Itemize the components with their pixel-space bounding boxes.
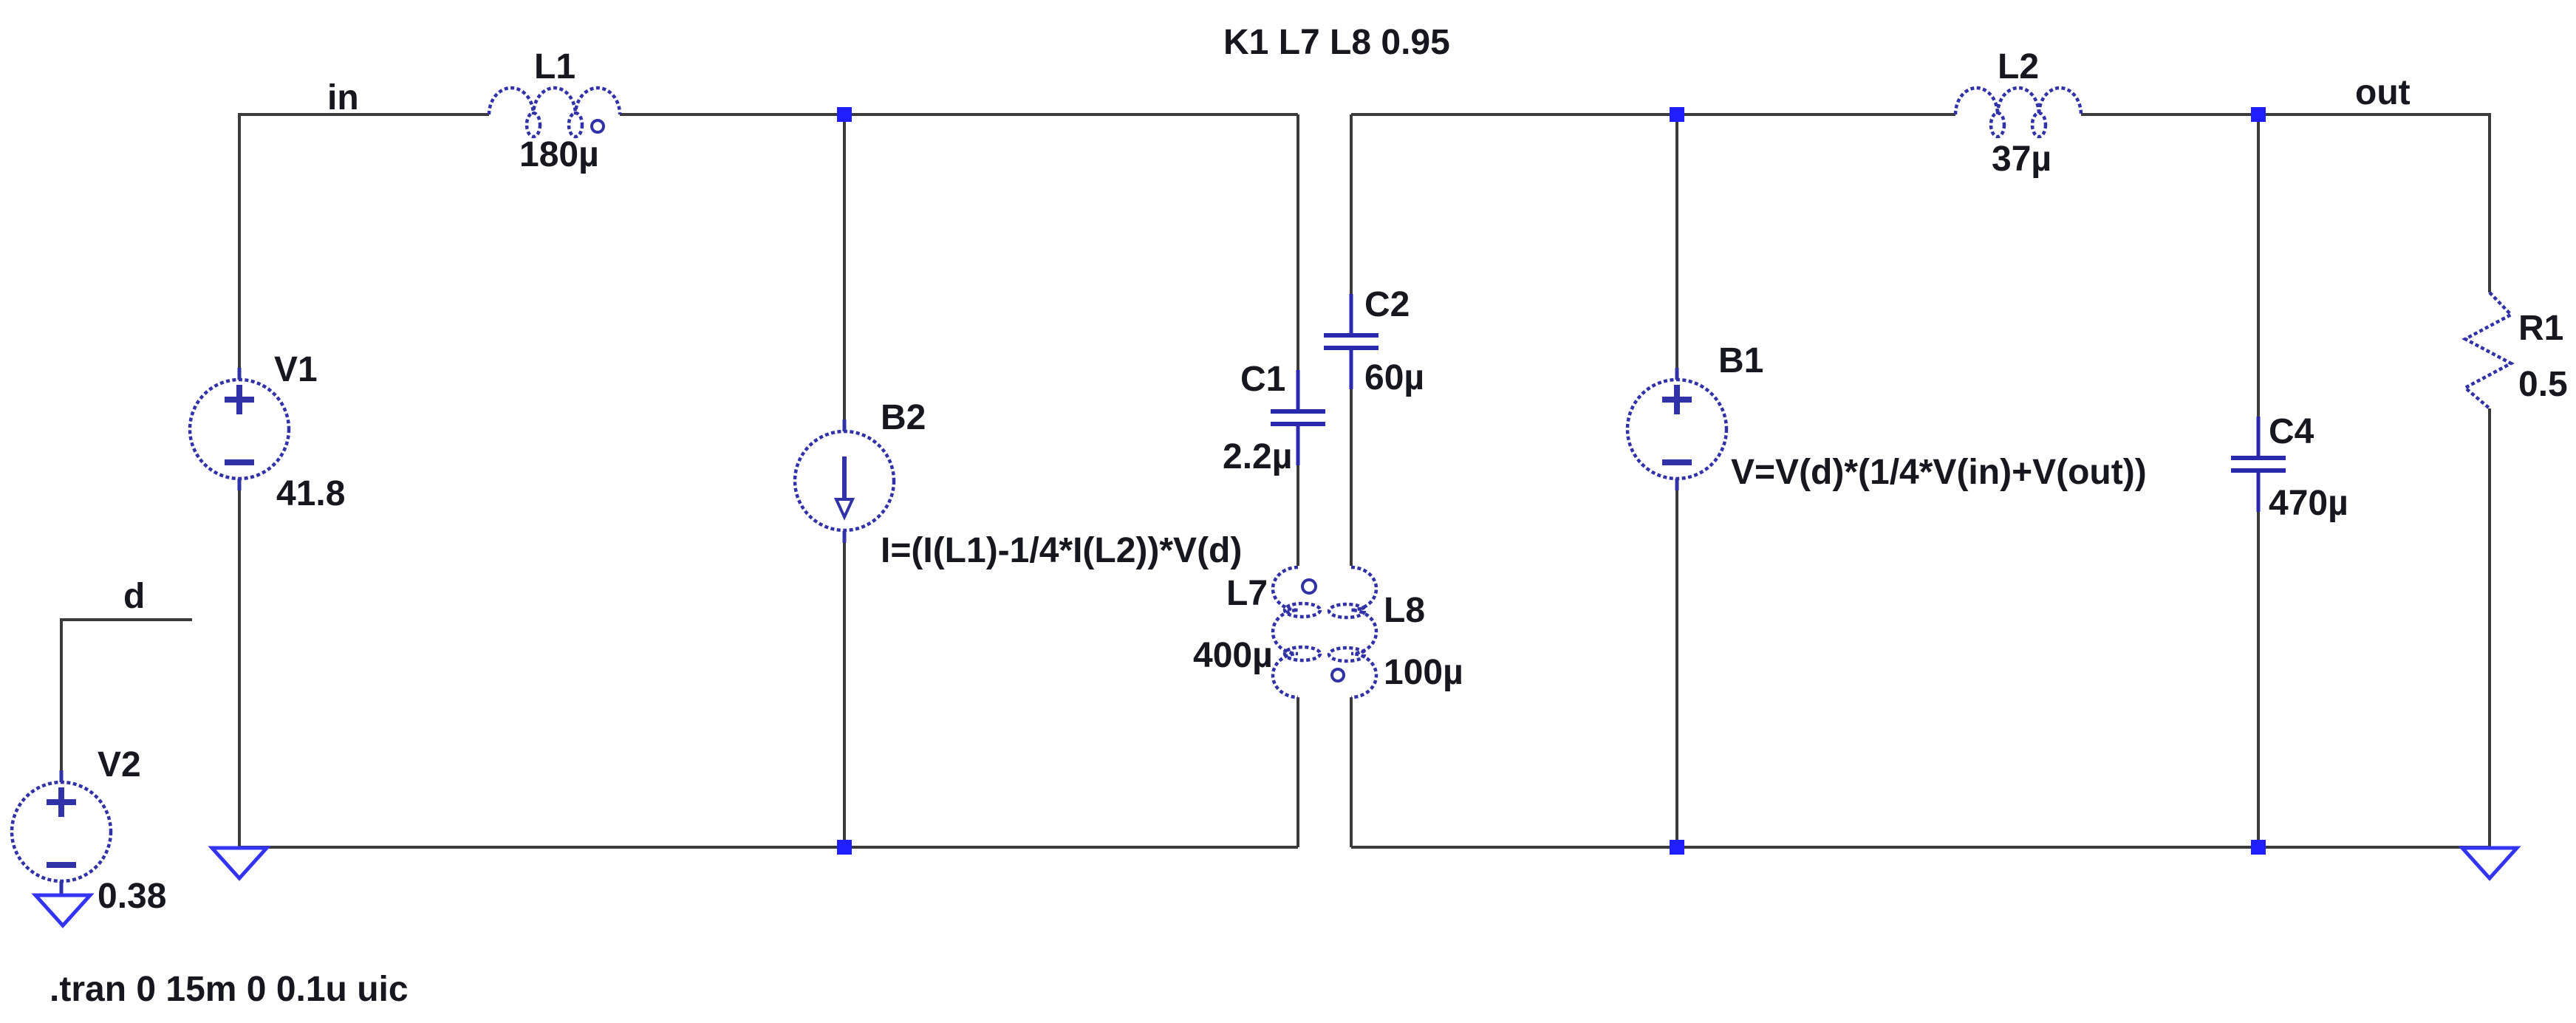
svg-text:0.38: 0.38 bbox=[98, 877, 166, 916]
svg-text:B2: B2 bbox=[881, 398, 926, 437]
wire B1 bottom bbox=[1675, 490, 1678, 847]
voltage source V2 bbox=[12, 770, 111, 895]
ground left bbox=[212, 848, 267, 878]
wire C4 bottom bbox=[2257, 512, 2260, 847]
svg-text:0.5: 0.5 bbox=[2518, 365, 2568, 404]
ground V2 bbox=[35, 895, 90, 926]
wire C4 top bbox=[2257, 114, 2260, 417]
svg-text:41.8: 41.8 bbox=[276, 474, 345, 513]
wire node d stub bbox=[61, 620, 192, 770]
svg-text:2.2µ: 2.2µ bbox=[1223, 437, 1292, 476]
svg-text:37µ: 37µ bbox=[1992, 140, 2051, 179]
node junction top B2 bbox=[837, 107, 852, 122]
svg-text:out: out bbox=[2355, 73, 2411, 112]
svg-text:L1: L1 bbox=[534, 47, 575, 86]
inductor L7 (coupled) bbox=[1273, 567, 1320, 697]
capacitor C2 bbox=[1324, 294, 1378, 389]
wire B2 bottom bbox=[843, 543, 846, 847]
svg-text:B1: B1 bbox=[1718, 341, 1763, 380]
svg-text:60µ: 60µ bbox=[1364, 358, 1424, 397]
svg-text:I=(I(L1)-1/4*I(L2))*V(d): I=(I(L1)-1/4*I(L2))*V(d) bbox=[881, 531, 1242, 570]
svg-text:C1: C1 bbox=[1240, 360, 1285, 399]
wire bottom-left rail bbox=[239, 846, 1298, 849]
wire B2 top bbox=[843, 114, 846, 420]
ground right bbox=[2462, 848, 2517, 878]
svg-text:V2: V2 bbox=[98, 745, 141, 784]
svg-text:L2: L2 bbox=[1998, 47, 2039, 86]
wire V1 bottom to rail bbox=[238, 490, 241, 847]
svg-text:.tran 0 15m 0 0.1u uic: .tran 0 15m 0 0.1u uic bbox=[49, 970, 409, 1009]
node junction bottom B2 bbox=[837, 840, 852, 855]
svg-text:K1 L7 L8 0.95: K1 L7 L8 0.95 bbox=[1223, 23, 1450, 62]
wire C2 branch top bbox=[1350, 114, 1353, 294]
node junction bottom B1 bbox=[1670, 840, 1684, 855]
behavioral current source B2 bbox=[795, 420, 894, 543]
wire top-right horizontal bbox=[1351, 114, 2490, 292]
wire top-left horizontal and left vertical bbox=[239, 114, 1298, 368]
svg-text:400µ: 400µ bbox=[1193, 636, 1273, 675]
resistor R1 bbox=[2465, 292, 2511, 408]
capacitor C1 bbox=[1271, 370, 1325, 465]
svg-text:L8: L8 bbox=[1384, 591, 1425, 630]
wire L8 bottom bbox=[1350, 697, 1353, 847]
wire C2 to L8 bbox=[1350, 389, 1353, 566]
capacitor C4 bbox=[2231, 417, 2286, 512]
svg-text:C2: C2 bbox=[1364, 285, 1410, 324]
inductor L1 bbox=[489, 88, 620, 137]
svg-text:V1: V1 bbox=[274, 350, 318, 389]
inductor L2 bbox=[1955, 88, 2081, 137]
svg-text:V=V(d)*(1/4*V(in)+V(out)): V=V(d)*(1/4*V(in)+V(out)) bbox=[1731, 453, 2147, 492]
wire R1 bottom bbox=[2488, 408, 2491, 847]
wire L7 bottom bbox=[1296, 697, 1299, 847]
svg-text:in: in bbox=[327, 78, 359, 117]
wire bottom-right rail bbox=[1351, 846, 2490, 849]
svg-text:d: d bbox=[123, 577, 145, 616]
node junction top C4 bbox=[2251, 107, 2266, 122]
svg-text:470µ: 470µ bbox=[2269, 484, 2348, 523]
svg-text:100µ: 100µ bbox=[1384, 653, 1463, 692]
svg-text:L7: L7 bbox=[1226, 574, 1268, 613]
inductor L8 (coupled) bbox=[1329, 567, 1376, 697]
svg-text:180µ: 180µ bbox=[519, 135, 599, 174]
svg-text:C4: C4 bbox=[2269, 412, 2314, 451]
voltage source V1 bbox=[190, 368, 289, 490]
node junction top B1 bbox=[1670, 107, 1684, 122]
behavioral voltage source B1 bbox=[1627, 368, 1726, 490]
wire C1 branch top bbox=[1296, 114, 1299, 370]
node junction bottom C4 bbox=[2251, 840, 2266, 855]
wire B1 top bbox=[1675, 114, 1678, 368]
wire C1 to L7 bbox=[1296, 465, 1299, 566]
svg-text:R1: R1 bbox=[2518, 309, 2563, 348]
